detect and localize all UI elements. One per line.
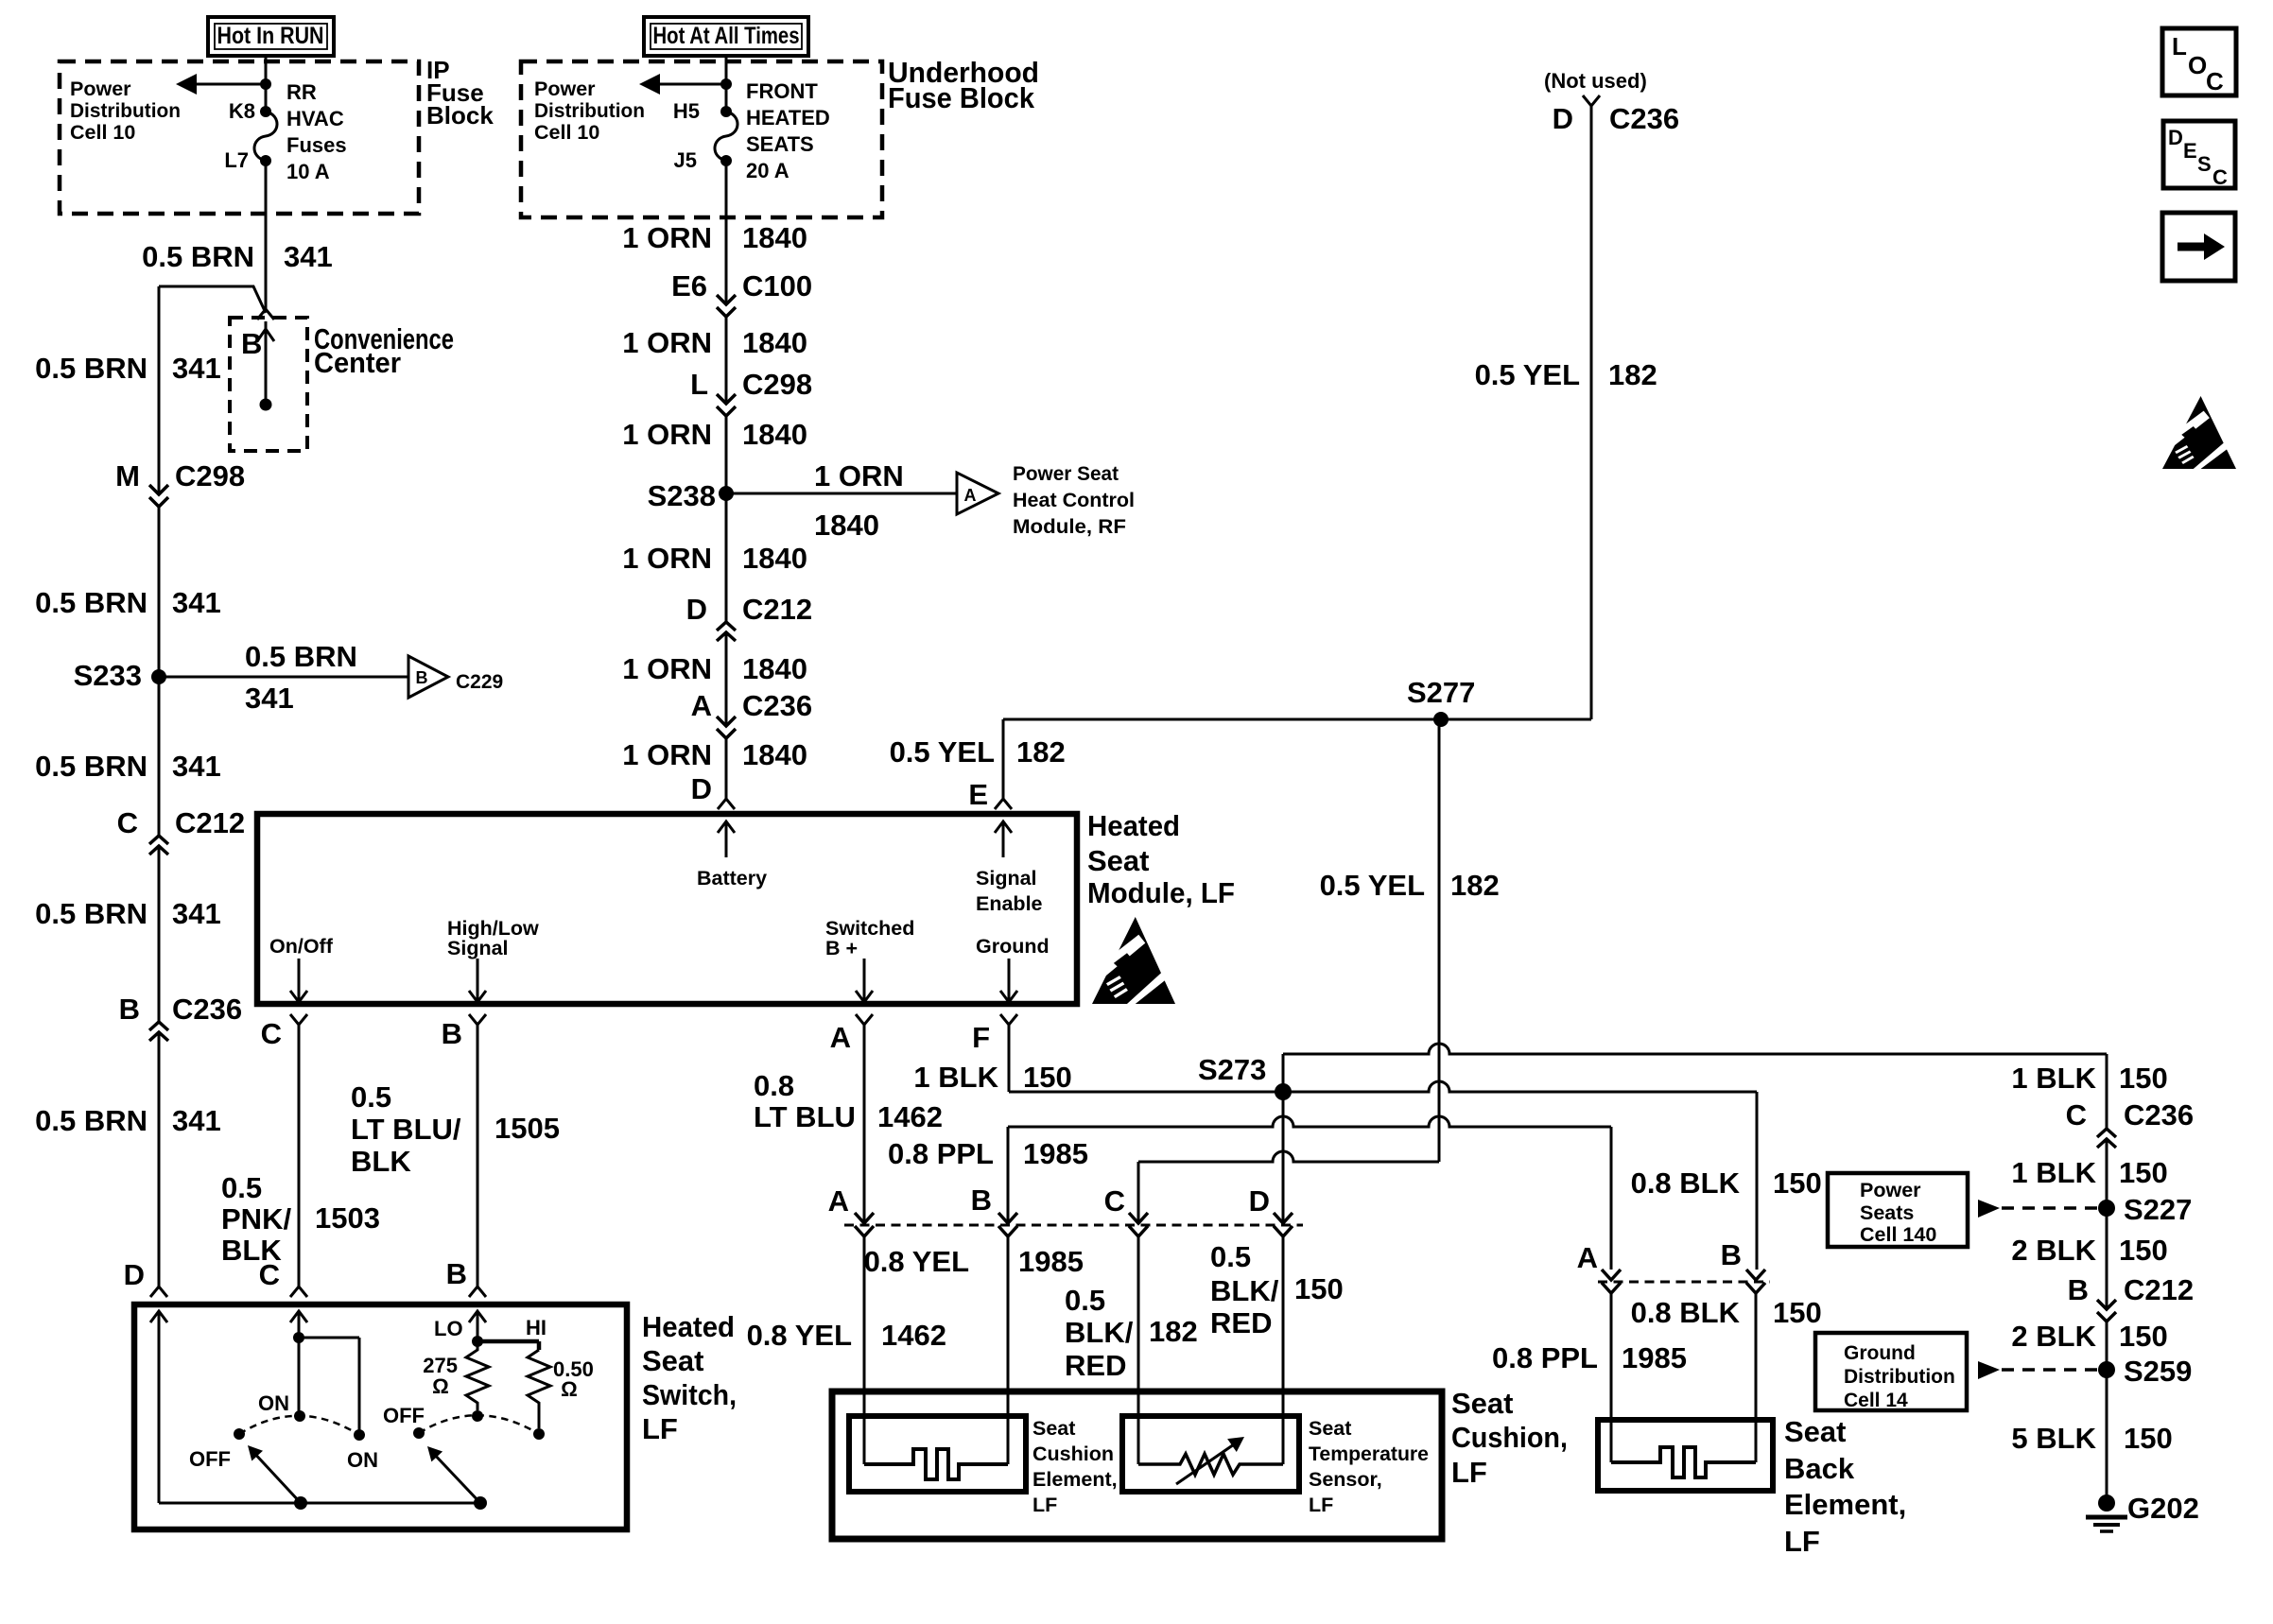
svg-text:D: D bbox=[124, 1258, 145, 1291]
svg-text:C229: C229 bbox=[456, 671, 503, 693]
svg-text:H5: H5 bbox=[673, 99, 700, 123]
svg-text:C: C bbox=[2206, 67, 2224, 95]
svg-text:D: D bbox=[691, 772, 712, 805]
svg-text:5 BLK: 5 BLK bbox=[2011, 1422, 2096, 1455]
svg-text:LF: LF bbox=[642, 1412, 678, 1445]
svg-text:Signal: Signal bbox=[447, 937, 509, 959]
svg-text:150: 150 bbox=[1294, 1272, 1344, 1305]
svg-text:Cell 10: Cell 10 bbox=[70, 121, 135, 144]
svg-text:Module, RF: Module, RF bbox=[1013, 515, 1126, 538]
svg-text:150: 150 bbox=[2124, 1422, 2173, 1455]
svg-text:1840: 1840 bbox=[742, 652, 807, 685]
svg-text:A: A bbox=[964, 486, 977, 505]
svg-text:Cushion,: Cushion, bbox=[1451, 1421, 1568, 1454]
svg-text:S233: S233 bbox=[74, 659, 142, 692]
svg-text:L7: L7 bbox=[224, 148, 249, 172]
svg-text:B: B bbox=[416, 668, 428, 687]
svg-text:150: 150 bbox=[2119, 1156, 2168, 1189]
svg-text:Hot In RUN: Hot In RUN bbox=[217, 23, 324, 49]
svg-text:0.5 YEL: 0.5 YEL bbox=[1475, 358, 1580, 391]
svg-text:0.5 YEL: 0.5 YEL bbox=[890, 735, 995, 769]
svg-text:150: 150 bbox=[1773, 1166, 1822, 1200]
svg-text:Hot At All Times: Hot At All Times bbox=[653, 23, 800, 49]
svg-text:150: 150 bbox=[1023, 1061, 1072, 1094]
svg-text:C: C bbox=[1104, 1184, 1125, 1218]
svg-text:L: L bbox=[2172, 32, 2187, 60]
svg-text:0.5: 0.5 bbox=[351, 1080, 391, 1114]
svg-text:0.8 YEL: 0.8 YEL bbox=[864, 1245, 969, 1278]
svg-text:BLK/: BLK/ bbox=[1065, 1316, 1134, 1349]
svg-text:C298: C298 bbox=[742, 368, 812, 401]
svg-text:C236: C236 bbox=[1609, 102, 1679, 135]
svg-text:C: C bbox=[2066, 1098, 2087, 1132]
svg-text:Element,: Element, bbox=[1032, 1468, 1118, 1491]
svg-text:C: C bbox=[2212, 165, 2228, 189]
svg-text:BLK/: BLK/ bbox=[1210, 1274, 1279, 1307]
svg-text:Seat: Seat bbox=[1087, 844, 1149, 877]
svg-text:341: 341 bbox=[172, 586, 221, 619]
svg-text:10 A: 10 A bbox=[286, 160, 330, 183]
svg-text:LT BLU/: LT BLU/ bbox=[351, 1113, 461, 1146]
svg-text:SEATS: SEATS bbox=[746, 132, 814, 156]
svg-text:182: 182 bbox=[1450, 869, 1500, 902]
svg-text:Seats: Seats bbox=[1860, 1201, 1914, 1224]
svg-text:D: D bbox=[1553, 102, 1573, 135]
svg-text:0.8 BLK: 0.8 BLK bbox=[1631, 1166, 1741, 1200]
svg-text:150: 150 bbox=[2119, 1320, 2168, 1353]
svg-text:Seat: Seat bbox=[1309, 1417, 1351, 1440]
svg-text:Ω: Ω bbox=[561, 1377, 578, 1401]
svg-text:D: D bbox=[686, 593, 707, 626]
svg-text:LF: LF bbox=[1451, 1456, 1487, 1489]
svg-text:0.5 BRN: 0.5 BRN bbox=[35, 352, 147, 385]
svg-text:HEATED: HEATED bbox=[746, 106, 830, 130]
svg-text:Heated: Heated bbox=[1087, 809, 1180, 842]
svg-text:Distribution: Distribution bbox=[70, 99, 181, 122]
svg-text:1 ORN: 1 ORN bbox=[814, 459, 904, 492]
svg-text:341: 341 bbox=[172, 897, 221, 930]
svg-text:Temperature: Temperature bbox=[1309, 1443, 1429, 1465]
svg-text:B: B bbox=[446, 1257, 467, 1290]
svg-text:2 BLK: 2 BLK bbox=[2011, 1234, 2096, 1267]
svg-text:B: B bbox=[2068, 1273, 2089, 1306]
svg-text:1840: 1840 bbox=[742, 738, 807, 771]
svg-text:182: 182 bbox=[1608, 358, 1657, 391]
svg-text:ON: ON bbox=[347, 1448, 378, 1472]
svg-text:0.8 PPL: 0.8 PPL bbox=[888, 1137, 994, 1170]
svg-text:341: 341 bbox=[172, 750, 221, 783]
svg-text:LF: LF bbox=[1784, 1525, 1820, 1558]
svg-text:1462: 1462 bbox=[881, 1319, 946, 1352]
svg-text:182: 182 bbox=[1016, 735, 1066, 769]
svg-text:ON: ON bbox=[258, 1391, 289, 1415]
svg-text:S227: S227 bbox=[2124, 1193, 2192, 1226]
svg-text:M: M bbox=[115, 459, 140, 492]
svg-text:Cell 14: Cell 14 bbox=[1844, 1390, 1908, 1411]
svg-text:Ground: Ground bbox=[1844, 1342, 1916, 1364]
svg-text:S273: S273 bbox=[1198, 1053, 1266, 1086]
svg-text:0.5 BRN: 0.5 BRN bbox=[35, 897, 147, 930]
svg-text:A: A bbox=[1577, 1241, 1598, 1274]
svg-text:S: S bbox=[2197, 152, 2212, 176]
svg-text:Ω: Ω bbox=[432, 1374, 449, 1398]
svg-text:B: B bbox=[1721, 1238, 1742, 1271]
svg-text:B: B bbox=[241, 327, 262, 360]
svg-text:C236: C236 bbox=[742, 689, 812, 722]
svg-text:S259: S259 bbox=[2124, 1355, 2192, 1388]
svg-text:Sensor,: Sensor, bbox=[1309, 1468, 1382, 1491]
svg-text:0.5 BRN: 0.5 BRN bbox=[245, 640, 357, 673]
svg-text:0.8 PPL: 0.8 PPL bbox=[1492, 1341, 1598, 1374]
svg-text:Block: Block bbox=[426, 101, 494, 130]
svg-text:LF: LF bbox=[1032, 1494, 1057, 1516]
svg-text:1 BLK: 1 BLK bbox=[913, 1061, 998, 1094]
svg-text:0.5 YEL: 0.5 YEL bbox=[1320, 869, 1425, 902]
svg-text:150: 150 bbox=[1773, 1296, 1822, 1329]
svg-text:Seat: Seat bbox=[1451, 1387, 1513, 1420]
svg-text:0.5 BRN: 0.5 BRN bbox=[35, 1104, 147, 1137]
svg-text:K8: K8 bbox=[229, 99, 255, 123]
svg-text:341: 341 bbox=[172, 352, 221, 385]
svg-text:Power: Power bbox=[1860, 1179, 1921, 1201]
svg-text:D: D bbox=[2168, 126, 2183, 149]
svg-text:1985: 1985 bbox=[1023, 1137, 1088, 1170]
svg-text:1840: 1840 bbox=[742, 221, 807, 254]
svg-text:LF: LF bbox=[1309, 1494, 1333, 1516]
svg-text:1 ORN: 1 ORN bbox=[622, 652, 712, 685]
svg-text:1 ORN: 1 ORN bbox=[622, 326, 712, 359]
svg-text:BLK: BLK bbox=[351, 1145, 411, 1178]
svg-text:A: A bbox=[691, 689, 712, 722]
svg-text:B: B bbox=[971, 1183, 992, 1217]
svg-text:B +: B + bbox=[825, 937, 858, 959]
svg-text:Distribution: Distribution bbox=[1844, 1366, 1955, 1388]
svg-text:D: D bbox=[1249, 1184, 1270, 1218]
svg-text:S277: S277 bbox=[1407, 676, 1475, 709]
svg-text:0.5: 0.5 bbox=[1065, 1284, 1105, 1317]
svg-text:1985: 1985 bbox=[1018, 1245, 1084, 1278]
svg-text:Signal: Signal bbox=[976, 867, 1037, 890]
svg-text:Switch,: Switch, bbox=[642, 1378, 737, 1411]
svg-text:O: O bbox=[2188, 51, 2207, 79]
svg-text:Cell 10: Cell 10 bbox=[534, 121, 599, 144]
svg-text:1840: 1840 bbox=[814, 509, 879, 542]
svg-text:1505: 1505 bbox=[495, 1112, 560, 1145]
svg-text:Module, LF: Module, LF bbox=[1087, 876, 1235, 909]
svg-text:Distribution: Distribution bbox=[534, 99, 645, 122]
svg-text:Cushion: Cushion bbox=[1032, 1443, 1114, 1465]
svg-text:RED: RED bbox=[1210, 1306, 1272, 1339]
svg-text:A: A bbox=[828, 1184, 849, 1218]
svg-text:Seat: Seat bbox=[1784, 1415, 1846, 1448]
svg-text:C298: C298 bbox=[175, 459, 245, 492]
svg-text:E: E bbox=[968, 778, 988, 811]
svg-text:Center: Center bbox=[314, 346, 401, 379]
svg-text:341: 341 bbox=[284, 240, 333, 273]
svg-text:Fuses: Fuses bbox=[286, 133, 347, 157]
svg-text:C212: C212 bbox=[2124, 1273, 2194, 1306]
svg-text:C: C bbox=[259, 1258, 280, 1291]
svg-text:Power: Power bbox=[534, 78, 596, 100]
svg-text:1840: 1840 bbox=[742, 542, 807, 575]
svg-text:1 ORN: 1 ORN bbox=[622, 221, 712, 254]
svg-text:Element,: Element, bbox=[1784, 1488, 1906, 1521]
svg-text:182: 182 bbox=[1149, 1315, 1198, 1348]
svg-text:Fuse Block: Fuse Block bbox=[888, 81, 1035, 114]
svg-text:1840: 1840 bbox=[742, 326, 807, 359]
svg-text:OFF: OFF bbox=[383, 1404, 425, 1427]
svg-text:150: 150 bbox=[2119, 1062, 2168, 1095]
svg-text:PNK/: PNK/ bbox=[221, 1202, 291, 1235]
svg-text:Heated: Heated bbox=[642, 1310, 735, 1343]
svg-text:C100: C100 bbox=[742, 269, 812, 302]
svg-text:0.8 YEL: 0.8 YEL bbox=[747, 1319, 852, 1352]
svg-text:C212: C212 bbox=[175, 806, 245, 839]
svg-text:C236: C236 bbox=[2124, 1098, 2194, 1132]
svg-text:OFF: OFF bbox=[189, 1447, 231, 1471]
svg-text:0.8 BLK: 0.8 BLK bbox=[1631, 1296, 1741, 1329]
svg-text:HI: HI bbox=[526, 1316, 547, 1339]
svg-text:C212: C212 bbox=[742, 593, 812, 626]
svg-text:B: B bbox=[442, 1017, 462, 1050]
svg-text:G202: G202 bbox=[2127, 1492, 2199, 1525]
svg-text:1 BLK: 1 BLK bbox=[2011, 1062, 2096, 1095]
svg-text:341: 341 bbox=[172, 1104, 221, 1137]
svg-text:1 ORN: 1 ORN bbox=[622, 418, 712, 451]
svg-text:Battery: Battery bbox=[697, 867, 767, 890]
svg-text:Seat: Seat bbox=[642, 1344, 703, 1377]
svg-text:LO: LO bbox=[434, 1317, 463, 1340]
svg-text:Seat: Seat bbox=[1032, 1417, 1075, 1440]
svg-text:LT BLU: LT BLU bbox=[754, 1100, 856, 1133]
svg-text:0.5 BRN: 0.5 BRN bbox=[35, 750, 147, 783]
svg-text:20 A: 20 A bbox=[746, 159, 789, 182]
svg-text:1 ORN: 1 ORN bbox=[622, 542, 712, 575]
svg-text:L: L bbox=[690, 368, 708, 401]
svg-text:Ground: Ground bbox=[976, 935, 1050, 958]
svg-text:FRONT: FRONT bbox=[746, 79, 818, 103]
svg-text:0.8: 0.8 bbox=[754, 1069, 794, 1102]
svg-text:E: E bbox=[2183, 139, 2197, 163]
svg-text:J5: J5 bbox=[674, 148, 697, 172]
svg-text:1840: 1840 bbox=[742, 418, 807, 451]
svg-text:C236: C236 bbox=[172, 993, 242, 1026]
svg-text:(Not used): (Not used) bbox=[1544, 69, 1647, 93]
svg-text:1 ORN: 1 ORN bbox=[622, 738, 712, 771]
svg-text:RR: RR bbox=[286, 80, 317, 104]
svg-text:1462: 1462 bbox=[877, 1100, 943, 1133]
svg-text:On/Off: On/Off bbox=[269, 935, 334, 958]
svg-text:2 BLK: 2 BLK bbox=[2011, 1320, 2096, 1353]
svg-text:E6: E6 bbox=[671, 269, 707, 302]
svg-text:Power Seat: Power Seat bbox=[1013, 462, 1119, 485]
svg-text:F: F bbox=[972, 1021, 990, 1054]
svg-text:0.5 BRN: 0.5 BRN bbox=[35, 586, 147, 619]
svg-text:Enable: Enable bbox=[976, 892, 1043, 915]
svg-text:1985: 1985 bbox=[1622, 1341, 1687, 1374]
svg-text:RED: RED bbox=[1065, 1349, 1126, 1382]
svg-text:341: 341 bbox=[245, 682, 294, 715]
svg-text:Back: Back bbox=[1784, 1452, 1855, 1485]
svg-text:Cell 140: Cell 140 bbox=[1860, 1223, 1936, 1246]
svg-text:150: 150 bbox=[2119, 1234, 2168, 1267]
svg-text:Heat Control: Heat Control bbox=[1013, 489, 1135, 511]
svg-text:C: C bbox=[261, 1017, 282, 1050]
svg-text:1503: 1503 bbox=[315, 1201, 380, 1235]
svg-text:S238: S238 bbox=[648, 479, 716, 512]
svg-text:B: B bbox=[119, 993, 140, 1026]
svg-text:1 BLK: 1 BLK bbox=[2011, 1156, 2096, 1189]
svg-text:C: C bbox=[117, 806, 138, 839]
svg-text:HVAC: HVAC bbox=[286, 107, 344, 130]
svg-text:0.5: 0.5 bbox=[221, 1171, 262, 1204]
svg-text:Power: Power bbox=[70, 78, 131, 100]
svg-text:A: A bbox=[830, 1021, 851, 1054]
svg-text:0.5: 0.5 bbox=[1210, 1240, 1251, 1273]
svg-text:0.5 BRN: 0.5 BRN bbox=[142, 240, 254, 273]
